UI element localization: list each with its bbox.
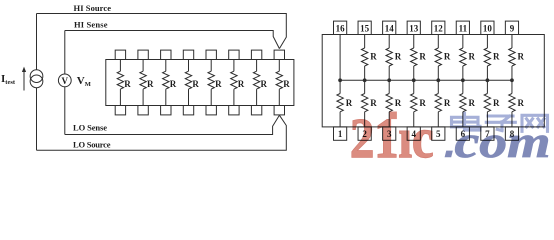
- top pin T8: [274, 50, 284, 59]
- svg-text:16: 16: [336, 24, 346, 34]
- svg-text:R: R: [493, 98, 500, 108]
- wire leads bottom resistor col 2: [364, 80, 366, 127]
- wire leads resistor 8: [278, 60, 280, 106]
- svg-text:R: R: [444, 98, 451, 108]
- bottom pin B2: [138, 106, 148, 115]
- junction node col 5: [436, 78, 440, 82]
- svg-text:R: R: [419, 98, 426, 108]
- svg-text:R: R: [493, 52, 500, 62]
- svg-text:R: R: [147, 79, 154, 89]
- resistor R8: [276, 71, 282, 89]
- svg-text:1: 1: [338, 129, 343, 139]
- resistor R bottom col 2: [361, 94, 367, 112]
- resistor R bottom col 7: [484, 94, 490, 112]
- top pin T7: [251, 50, 261, 59]
- wire leads resistor 6: [233, 60, 235, 106]
- top pin T2: [138, 50, 148, 59]
- wire LO Sense: [65, 115, 280, 134]
- junction node col 8: [510, 78, 514, 82]
- top pin T3: [161, 50, 171, 59]
- wire leads bottom resistor col 7: [486, 80, 488, 127]
- bottom pin B8: [274, 106, 284, 115]
- svg-text:R: R: [468, 98, 475, 108]
- resistor network package outline (left): [106, 60, 294, 106]
- top pin 9: [505, 21, 518, 34]
- svg-text:R: R: [170, 79, 177, 89]
- svg-text:9: 9: [510, 24, 515, 34]
- wire voltmeter branch: [64, 31, 66, 135]
- watermark .com: [445, 151, 453, 158]
- svg-text:5: 5: [436, 129, 441, 139]
- bottom pin B5: [206, 106, 216, 115]
- top pin T6: [229, 50, 239, 59]
- top pin 10: [481, 21, 494, 34]
- bottom pin B7: [251, 106, 261, 115]
- top pin T4: [183, 50, 193, 59]
- svg-text:R: R: [238, 79, 245, 89]
- watermark chinese characters: [452, 113, 548, 131]
- resistor R bottom col 3: [386, 94, 392, 112]
- bottom pin B3: [161, 106, 171, 115]
- resistor R top col 6: [460, 48, 466, 66]
- resistor R top col 7: [484, 48, 490, 66]
- svg-text:LO Sense: LO Sense: [73, 123, 107, 133]
- wire pin 16 to bus: [339, 35, 341, 81]
- svg-text:R: R: [192, 79, 199, 89]
- bottom pin B1: [115, 106, 125, 115]
- wire leads top resistor col 2: [364, 35, 366, 81]
- svg-text:11: 11: [459, 24, 468, 34]
- top pin 11: [456, 21, 469, 34]
- svg-text:R: R: [419, 52, 426, 62]
- top pin 15: [358, 21, 371, 34]
- svg-text:21ıc: 21ıc: [350, 108, 434, 159]
- wire LO Source: [37, 115, 287, 150]
- svg-text:15: 15: [360, 24, 370, 34]
- current source Itest (two overlapping circles): [30, 70, 43, 83]
- wire leads bottom resistor col 4: [413, 80, 415, 127]
- wire leads bottom resistor col 5: [437, 80, 439, 127]
- resistor R top col 3: [386, 48, 392, 66]
- bottom pin 8: [505, 127, 518, 140]
- resistor R1: [117, 71, 123, 89]
- svg-text:R: R: [370, 52, 377, 62]
- wire leads bottom resistor col 1: [339, 80, 341, 127]
- svg-text:12: 12: [434, 24, 444, 34]
- wire leads top resistor col 8: [511, 35, 513, 81]
- svg-text:R: R: [444, 52, 451, 62]
- svg-text:R: R: [346, 98, 353, 108]
- resistor R bottom col 4: [411, 94, 417, 112]
- junction node col 1: [338, 78, 342, 82]
- wire leads resistor 2: [142, 60, 144, 106]
- resistor R bottom col 8: [509, 94, 515, 112]
- bottom pin B6: [229, 106, 239, 115]
- watermark 21ic: [389, 112, 397, 120]
- resistor network package outline (right): [322, 35, 544, 127]
- junction node col 6: [461, 78, 465, 82]
- wire leads resistor 7: [256, 60, 258, 106]
- wire current-source branch: [36, 14, 38, 151]
- resistor R top col 2: [361, 48, 367, 66]
- bottom pin 3: [383, 127, 396, 140]
- junction node col 3: [387, 78, 391, 82]
- top pin 12: [432, 21, 445, 34]
- wire leads top resistor col 4: [413, 35, 415, 81]
- bottom pin 4: [407, 127, 420, 140]
- resistor R bottom col 1: [337, 94, 343, 112]
- svg-text:R: R: [468, 52, 475, 62]
- svg-text:14: 14: [385, 24, 395, 34]
- svg-text:R: R: [395, 98, 402, 108]
- voltmeter VM: [58, 74, 71, 87]
- svg-text:R: R: [124, 79, 131, 89]
- top pin 13: [407, 21, 420, 34]
- top pin 14: [383, 21, 396, 34]
- resistor R2: [140, 71, 146, 89]
- bottom pin 1: [334, 127, 347, 140]
- svg-text:HI Source: HI Source: [74, 3, 112, 13]
- top pin 16: [334, 21, 347, 34]
- svg-text:R: R: [518, 52, 525, 62]
- bottom pin 5: [432, 127, 445, 140]
- wire leads top resistor col 5: [437, 35, 439, 81]
- resistor R top col 4: [411, 48, 417, 66]
- common bus wire: [340, 79, 512, 81]
- svg-text:R: R: [370, 98, 377, 108]
- top pin T1: [115, 50, 125, 59]
- svg-text:com: com: [455, 116, 551, 159]
- wire leads top resistor col 7: [486, 35, 488, 81]
- wire HI Source: [37, 14, 287, 49]
- wire leads bottom resistor col 3: [388, 80, 390, 127]
- wire leads bottom resistor col 6: [462, 80, 464, 127]
- svg-text:LO Source: LO Source: [73, 139, 111, 149]
- svg-text:HI Sense: HI Sense: [74, 20, 108, 30]
- resistor R bottom col 6: [460, 94, 466, 112]
- wire leads resistor 3: [165, 60, 167, 106]
- resistor R7: [253, 71, 259, 89]
- junction node col 4: [412, 78, 416, 82]
- bottom pin 6: [456, 127, 469, 140]
- wire leads resistor 1: [119, 60, 121, 106]
- wire leads bottom resistor col 8: [511, 80, 513, 127]
- bottom pin 2: [358, 127, 371, 140]
- top pin T5: [206, 50, 216, 59]
- svg-text:R: R: [518, 98, 525, 108]
- resistor R5: [208, 71, 214, 89]
- svg-text:10: 10: [483, 24, 493, 34]
- junction node col 2: [363, 78, 367, 82]
- current direction arrow: [23, 70, 25, 90]
- svg-text:R: R: [283, 79, 290, 89]
- svg-text:R: R: [395, 52, 402, 62]
- wire leads top resistor col 6: [462, 35, 464, 81]
- svg-text:R: R: [215, 79, 222, 89]
- resistor R top col 8: [509, 48, 515, 66]
- wire leads top resistor col 3: [388, 35, 390, 81]
- svg-text:13: 13: [409, 24, 419, 34]
- wire leads resistor 4: [188, 60, 190, 106]
- svg-text:V: V: [62, 76, 69, 86]
- resistor R top col 5: [435, 48, 441, 66]
- junction node col 7: [486, 78, 490, 82]
- resistor R3: [163, 71, 169, 89]
- resistor R6: [231, 71, 237, 89]
- resistor R bottom col 5: [435, 94, 441, 112]
- wire leads resistor 5: [210, 60, 212, 106]
- svg-text:R: R: [261, 79, 268, 89]
- resistor R4: [185, 71, 191, 89]
- bottom pin B4: [183, 106, 193, 115]
- wire HI Sense: [65, 31, 280, 49]
- bottom pin 7: [481, 127, 494, 140]
